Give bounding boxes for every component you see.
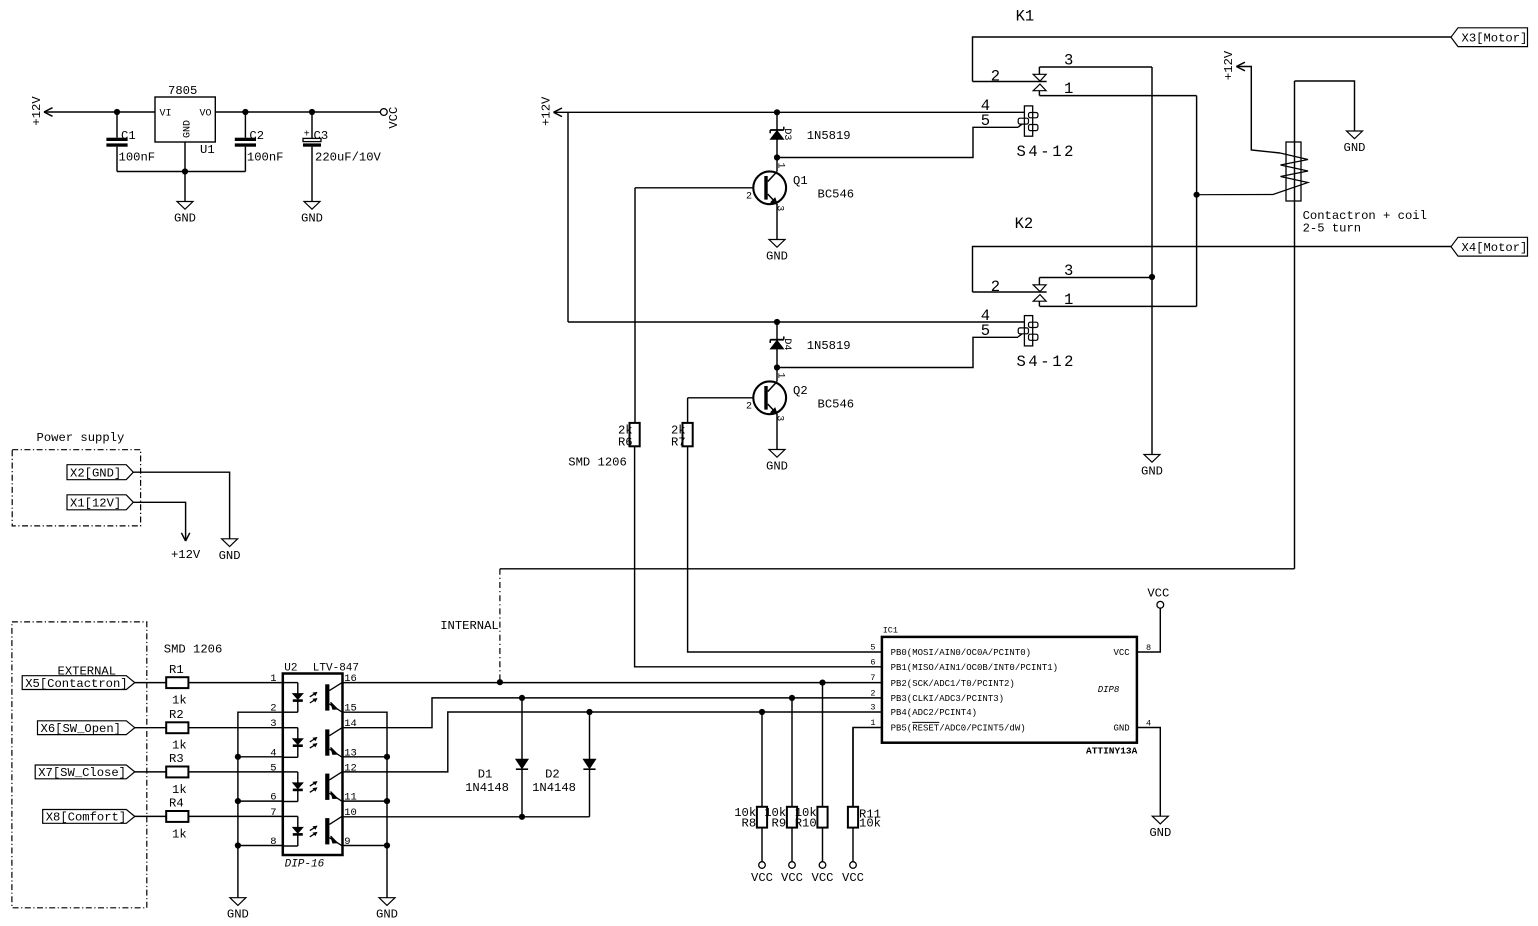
wire reed switch top to ground xyxy=(1295,81,1355,131)
wire U2 pin15 to right GND bus xyxy=(343,712,388,898)
node junction C1 xyxy=(114,109,120,115)
wire U2 pin13 to bus xyxy=(343,756,388,758)
svg-text:8: 8 xyxy=(1146,643,1151,653)
relay K1 contact arrows xyxy=(1033,67,1046,96)
svg-text:+12V: +12V xyxy=(539,96,553,126)
svg-text:BC546: BC546 xyxy=(818,188,855,202)
resistor R9 10k xyxy=(764,806,797,831)
optocoupler channel 1 xyxy=(283,682,343,712)
svg-text:3: 3 xyxy=(1064,52,1073,70)
svg-text:R7: R7 xyxy=(671,435,686,449)
wire Q1 base to R6 xyxy=(634,188,636,423)
resistor R1 1k xyxy=(166,663,188,708)
svg-text:220uF/10V: 220uF/10V xyxy=(315,151,382,165)
wire R11 bottom xyxy=(852,828,854,862)
optocoupler channel 3 xyxy=(283,772,343,802)
node junction pin4 bus xyxy=(235,754,241,760)
svg-text:VCC: VCC xyxy=(842,871,864,885)
power symbol VCC (IC1) xyxy=(1147,587,1169,609)
relay K2 contact common pin 2 xyxy=(973,291,1047,293)
node junction pin11 bus xyxy=(384,798,390,804)
wire R9 bottom xyxy=(791,828,793,862)
power symbol VCC (output) xyxy=(380,107,401,129)
svg-text:10k: 10k xyxy=(859,817,881,831)
wire X2 to ground xyxy=(133,472,229,539)
svg-text:100nF: 100nF xyxy=(119,151,156,165)
svg-text:C3: C3 xyxy=(314,129,329,143)
svg-text:PB3(CLKI/ADC3/PCINT3): PB3(CLKI/ADC3/PCINT3) xyxy=(891,694,1004,704)
wire X7 to R3 xyxy=(135,771,166,773)
svg-text:D3: D3 xyxy=(781,128,792,140)
svg-text:GND: GND xyxy=(1141,465,1163,479)
svg-text:U2: U2 xyxy=(284,663,297,675)
svg-text:2: 2 xyxy=(991,68,1000,86)
wire +12V rail drop to K2 coil xyxy=(567,112,569,322)
connector X3[Motor] xyxy=(1451,28,1528,47)
svg-text:X7[SW_Close]: X7[SW_Close] xyxy=(38,766,126,780)
svg-text:DIP-16: DIP-16 xyxy=(285,859,325,871)
ground right bus xyxy=(376,898,398,922)
wire U1 VO to VCC xyxy=(215,111,380,113)
wire R1 to U2 pin 1 xyxy=(188,682,283,684)
capacitor C3 220uF/10V xyxy=(303,112,382,202)
connector X4[Motor] xyxy=(1451,237,1528,256)
relay K2 pin 1 wire xyxy=(1039,305,1196,307)
wire X1 to +12V xyxy=(133,502,185,541)
connector X6 X6[SW_Open] xyxy=(38,721,135,736)
wire R6 to IC1 PB1 xyxy=(635,446,882,667)
svg-text:X3[Motor]: X3[Motor] xyxy=(1462,32,1528,46)
wire R9 top xyxy=(791,698,793,807)
svg-text:1: 1 xyxy=(1064,291,1073,309)
svg-text:7: 7 xyxy=(870,673,875,683)
power supply dashed box xyxy=(12,450,140,526)
svg-text:BC546: BC546 xyxy=(818,398,855,412)
transistor Q1 BC546 xyxy=(746,158,854,212)
wire Q1 emitter to ground xyxy=(776,204,778,240)
wire K2 common to X4 xyxy=(973,247,1452,293)
svg-text:1N4148: 1N4148 xyxy=(465,781,509,795)
node junction D4 anode xyxy=(774,364,780,370)
relay K2 contact arrows xyxy=(1033,278,1046,307)
resistor R2 1k xyxy=(166,708,188,753)
svg-text:5: 5 xyxy=(870,643,875,653)
svg-text:6: 6 xyxy=(870,657,875,667)
svg-text:PB4(ADC2/PCINT4): PB4(ADC2/PCINT4) xyxy=(891,708,977,718)
svg-text:1: 1 xyxy=(870,718,875,728)
svg-text:1k: 1k xyxy=(172,739,187,753)
svg-text:2: 2 xyxy=(991,278,1000,296)
relay K2 coil S4-12 xyxy=(981,307,1076,371)
svg-text:X4[Motor]: X4[Motor] xyxy=(1462,241,1528,255)
svg-text:2: 2 xyxy=(870,688,875,698)
voltage regulator U1 7805 xyxy=(155,84,215,157)
svg-text:3: 3 xyxy=(270,718,276,730)
svg-text:GND: GND xyxy=(766,250,788,264)
ground above contactron xyxy=(1344,131,1366,155)
wire R10 top xyxy=(822,683,824,807)
svg-text:S4-12: S4-12 xyxy=(1017,143,1077,161)
wire Q1 base xyxy=(635,187,753,189)
svg-text:D2: D2 xyxy=(545,767,560,781)
wire K1 pin3 to K2 pin3 and ground xyxy=(1151,67,1153,455)
wire K2 coil pin 4 rail xyxy=(568,321,1024,323)
ground left bus xyxy=(227,898,249,922)
relay K1 coil S4-12 xyxy=(981,97,1076,161)
relay K1 contact common pin 2 xyxy=(973,81,1047,83)
node junction GND rail xyxy=(182,168,188,174)
svg-text:VCC: VCC xyxy=(1113,648,1130,658)
svg-text:100nF: 100nF xyxy=(247,151,284,165)
power symbol +12V (coil) xyxy=(1222,50,1245,80)
wire R3 to U2 pin 5 xyxy=(188,771,283,773)
svg-text:SMD 1206: SMD 1206 xyxy=(164,643,223,657)
svg-text:R9: R9 xyxy=(772,817,787,831)
node junction D3 anode xyxy=(774,154,780,160)
svg-text:GND: GND xyxy=(1344,141,1366,155)
wire U2 pin2 to left GND bus xyxy=(238,712,283,898)
svg-text:GND: GND xyxy=(1149,826,1171,840)
svg-text:GND: GND xyxy=(219,549,241,563)
svg-text:1N5819: 1N5819 xyxy=(807,129,851,143)
svg-text:3: 3 xyxy=(1064,262,1073,280)
relay K2 pin 3 wire xyxy=(1039,277,1152,279)
svg-text:R10: R10 xyxy=(795,817,817,831)
svg-text:ATTINY13A: ATTINY13A xyxy=(1086,745,1138,756)
wire X5 to R1 xyxy=(135,682,166,684)
svg-text:R8: R8 xyxy=(742,817,757,831)
wire IC1 VCC pin 8 xyxy=(1137,608,1160,652)
wire reed switch to internal divider xyxy=(500,568,1295,570)
node junction pin6 bus xyxy=(235,798,241,804)
power symbol VCC (R9) xyxy=(781,862,803,885)
transistor Q2 BC546 xyxy=(746,368,854,422)
wire R7 to IC1 PB0 xyxy=(688,446,882,652)
wire U2 pin9 to bus xyxy=(343,845,388,847)
reed switch envelope xyxy=(1286,142,1301,201)
svg-text:D1: D1 xyxy=(478,767,493,781)
wire X8 to R4 xyxy=(135,815,166,817)
wire K1 common to X3 xyxy=(973,37,1452,82)
optocoupler channel 4 xyxy=(283,816,343,846)
svg-text:GND: GND xyxy=(376,908,398,922)
node junction D1 top xyxy=(519,695,525,701)
svg-text:7: 7 xyxy=(270,807,276,819)
svg-text:GND: GND xyxy=(227,908,249,922)
svg-text:3: 3 xyxy=(773,415,784,421)
svg-text:C1: C1 xyxy=(121,129,136,143)
wire capacitor ground rail xyxy=(117,171,245,173)
wire D4 anode to K2 coil pin 5 xyxy=(777,337,1018,367)
connector X1[12V] xyxy=(67,495,133,511)
svg-text:2: 2 xyxy=(746,191,752,202)
wire Q2 emitter to ground xyxy=(776,414,778,450)
connector X8 X8[Comfort] xyxy=(43,810,135,825)
resistor R11 10k xyxy=(848,807,881,831)
svg-text:VO: VO xyxy=(200,109,212,120)
ground below Q2 xyxy=(766,450,788,474)
svg-text:INTERNAL: INTERNAL xyxy=(440,619,499,633)
connector X5 X5[Contactron] xyxy=(22,676,135,691)
wire U2 pin11 to bus xyxy=(343,800,388,802)
wire +12V rail to K1 coil pin 4 xyxy=(554,111,1025,113)
svg-text:GND: GND xyxy=(766,460,788,474)
svg-text:2: 2 xyxy=(746,401,752,412)
svg-text:+: + xyxy=(304,130,310,141)
svg-text:VCC: VCC xyxy=(751,871,773,885)
wire U2 pin8 to bus xyxy=(238,845,283,847)
capacitor C1 100nF xyxy=(106,112,155,172)
wire +12V to U1 VI xyxy=(44,111,155,113)
wire U2 pin6 to bus xyxy=(238,800,283,802)
wire R8 top xyxy=(761,712,763,807)
ground below relay chain xyxy=(1141,455,1163,479)
resistor R7 2k xyxy=(671,423,693,449)
svg-text:+12V: +12V xyxy=(1222,50,1236,80)
node junction divider xyxy=(497,679,503,685)
svg-text:VI: VI xyxy=(160,109,172,120)
svg-text:Q1: Q1 xyxy=(793,174,808,188)
wire U2 pin16 to IC1 PB2 xyxy=(343,682,883,684)
svg-text:IC1: IC1 xyxy=(883,625,898,635)
optocoupler channel 2 xyxy=(283,727,343,757)
node junction pin8 bus xyxy=(235,842,241,848)
svg-text:1: 1 xyxy=(774,372,785,378)
svg-text:1: 1 xyxy=(1064,80,1073,98)
svg-text:K1: K1 xyxy=(1016,8,1035,26)
ground below IC1 xyxy=(1149,816,1171,840)
divider dash-dot to U2 pin16 net xyxy=(499,569,501,682)
ground from X2 xyxy=(219,539,241,563)
label contactron xyxy=(1303,209,1427,236)
wire X6 to R2 xyxy=(135,727,166,729)
svg-text:X5[Contactron]: X5[Contactron] xyxy=(25,677,127,691)
wire D3 anode to K1 coil pin 5 xyxy=(777,127,1018,157)
svg-text:K2: K2 xyxy=(1015,215,1034,233)
wire U2 pin4 to bus xyxy=(238,756,283,758)
svg-text:PB2(SCK/ADC1/T0/PCINT2): PB2(SCK/ADC1/T0/PCINT2) xyxy=(891,679,1015,689)
svg-text:Q2: Q2 xyxy=(793,384,808,398)
power symbol +12V (input) xyxy=(30,96,53,126)
relay K1 pin 1 wire xyxy=(1039,95,1196,97)
wire reed switch vertical xyxy=(1294,81,1296,569)
node junction coil tap xyxy=(1194,192,1200,198)
node junction R10 tap xyxy=(819,680,825,686)
wire R2 to U2 pin 3 xyxy=(188,727,283,729)
power symbol VCC (R11) xyxy=(842,862,864,885)
svg-text:X6[SW_Open]: X6[SW_Open] xyxy=(41,722,121,736)
wire U2 pin10 to diodes xyxy=(343,816,590,818)
diode D1 1N4148 xyxy=(465,698,528,817)
svg-text:4: 4 xyxy=(1146,719,1151,729)
wire U2 pin12 to IC1 PB4 xyxy=(343,712,883,772)
svg-text:+12V: +12V xyxy=(30,96,44,126)
svg-text:1: 1 xyxy=(270,673,276,685)
connector X2[GND] xyxy=(67,465,133,481)
svg-text:1N4148: 1N4148 xyxy=(532,781,576,795)
power symbol +12V (relay rail) xyxy=(539,96,562,126)
ground below Q1 xyxy=(766,240,788,264)
wire U2 pin14 to IC1 PB3 xyxy=(343,698,883,728)
node junction R9 tap xyxy=(789,695,795,701)
svg-text:VCC: VCC xyxy=(387,107,401,129)
power symbol VCC (R8) xyxy=(751,862,773,885)
svg-text:S4-12: S4-12 xyxy=(1017,353,1077,371)
wire Q2 base to R7 xyxy=(687,398,689,423)
svg-text:U1: U1 xyxy=(200,143,215,157)
svg-text:5: 5 xyxy=(270,762,276,774)
wire U1 GND pin xyxy=(184,142,186,172)
diode D4 1N5819 xyxy=(770,322,850,368)
svg-text:PB1(MISO/AIN1/OC0B/INT0/PCINT1: PB1(MISO/AIN1/OC0B/INT0/PCINT1) xyxy=(891,663,1058,673)
connector X7 X7[SW_Close] xyxy=(35,765,135,780)
svg-text:1k: 1k xyxy=(172,827,187,841)
svg-text:VCC: VCC xyxy=(812,871,834,885)
svg-text:GND: GND xyxy=(174,212,196,226)
svg-text:D4: D4 xyxy=(781,338,792,350)
node junction K2 pin3 xyxy=(1149,274,1155,280)
svg-text:PB0(MOSI/AIN0/OC0A/PCINT0): PB0(MOSI/AIN0/OC0A/PCINT0) xyxy=(891,648,1031,658)
svg-text:+12V: +12V xyxy=(171,548,201,562)
resistor R6 2k xyxy=(618,423,640,449)
resistor R8 10k xyxy=(734,806,767,831)
svg-text:5: 5 xyxy=(981,112,990,130)
svg-text:GND: GND xyxy=(182,120,193,138)
power symbol +12V (from X1) xyxy=(171,533,201,562)
wire R10 bottom xyxy=(822,828,824,862)
microcontroller IC1 ATTINY13A xyxy=(882,625,1138,756)
svg-text:1k: 1k xyxy=(172,694,187,708)
relay K1 pin 3 wire xyxy=(1039,66,1152,68)
node junction D3 top xyxy=(774,109,780,115)
node junction C3 xyxy=(309,109,315,115)
svg-text:DIP8: DIP8 xyxy=(1098,685,1120,695)
svg-text:X2[GND]: X2[GND] xyxy=(70,467,121,481)
wire IC1 pin1 to R11 xyxy=(853,728,882,807)
node junction C2 xyxy=(242,109,248,115)
svg-text:3: 3 xyxy=(773,205,784,211)
svg-text:5: 5 xyxy=(981,322,990,340)
power symbol VCC (R10) xyxy=(812,862,834,885)
svg-text:R3: R3 xyxy=(169,752,184,766)
diode D2 1N4148 xyxy=(532,712,596,817)
wire Q2 base xyxy=(688,397,754,399)
svg-text:SMD 1206: SMD 1206 xyxy=(568,456,627,470)
svg-text:R2: R2 xyxy=(169,708,184,722)
wire IC1 GND pin 4 xyxy=(1137,728,1160,817)
resistor R3 1k xyxy=(166,752,188,797)
wire R11 top xyxy=(852,728,854,807)
diode D3 1N5819 xyxy=(770,112,850,157)
svg-text:PB5(RESET/ADC0/PCINT5/dW): PB5(RESET/ADC0/PCINT5/dW) xyxy=(891,724,1026,734)
ground below U1 xyxy=(174,202,196,226)
node junction pin9 bus xyxy=(384,842,390,848)
svg-text:R6: R6 xyxy=(618,435,633,449)
svg-text:7805: 7805 xyxy=(168,84,197,98)
svg-text:1k: 1k xyxy=(172,783,187,797)
svg-text:VCC: VCC xyxy=(781,871,803,885)
wire K1 pin1 to K2 pin1 xyxy=(1196,96,1198,307)
node junction D2 top xyxy=(586,709,592,715)
svg-text:R4: R4 xyxy=(169,797,184,811)
wire R4 to U2 pin 7 xyxy=(188,815,283,817)
node junction D4 top xyxy=(774,319,780,325)
svg-text:1: 1 xyxy=(774,162,785,168)
node junction pin13 bus xyxy=(384,754,390,760)
inductor coil 2-5 turn xyxy=(1197,153,1308,195)
svg-text:VCC: VCC xyxy=(1147,587,1169,601)
svg-text:X8[Comfort]: X8[Comfort] xyxy=(46,811,126,825)
resistor R10 10k xyxy=(795,806,828,831)
svg-text:C2: C2 xyxy=(249,129,264,143)
resistor R4 1k xyxy=(166,797,188,842)
node junction R8 tap xyxy=(759,709,765,715)
svg-text:GND: GND xyxy=(301,212,323,226)
svg-text:1N5819: 1N5819 xyxy=(807,339,851,353)
capacitor C2 100nF xyxy=(235,112,284,172)
svg-text:Power supply: Power supply xyxy=(37,431,125,445)
wire to ground xyxy=(184,172,186,202)
external dashed box xyxy=(12,622,147,908)
wire +12V to coil top xyxy=(1236,67,1280,154)
svg-text:GND: GND xyxy=(1113,724,1129,734)
optocoupler U2 LTV-847 xyxy=(283,663,359,871)
wire R8 bottom xyxy=(761,828,763,862)
svg-text:R1: R1 xyxy=(169,663,184,677)
svg-text:X1[12V]: X1[12V] xyxy=(70,497,121,511)
svg-text:3: 3 xyxy=(870,703,875,713)
svg-text:2-5 turn: 2-5 turn xyxy=(1303,222,1362,236)
ground below C3 xyxy=(301,202,323,226)
node junction D1 bottom xyxy=(519,814,525,820)
